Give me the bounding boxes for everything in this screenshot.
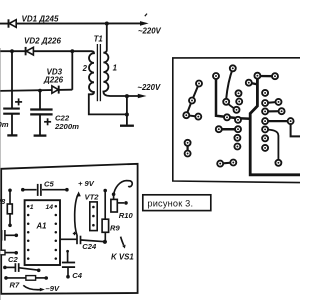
svg-text:K VS1: K VS1 (111, 253, 134, 262)
svg-text:R7: R7 (10, 281, 20, 290)
svg-text:~220V: ~220V (138, 27, 162, 36)
svg-text:T1: T1 (94, 35, 103, 44)
svg-text:VT2: VT2 (85, 192, 100, 201)
svg-text:2200m: 2200m (54, 122, 79, 131)
svg-text:0m: 0m (0, 120, 9, 129)
svg-text:14: 14 (46, 204, 54, 211)
svg-text:C2: C2 (8, 255, 18, 264)
svg-text:VD1 Д245: VD1 Д245 (22, 15, 59, 24)
svg-text:C4: C4 (72, 271, 82, 280)
svg-text:C24: C24 (82, 242, 97, 251)
svg-text:R10: R10 (119, 211, 134, 220)
svg-text:Д226: Д226 (43, 76, 64, 85)
svg-text:R8: R8 (0, 197, 6, 206)
svg-text:2: 2 (82, 64, 88, 73)
svg-text:VD2 Д226: VD2 Д226 (24, 36, 61, 45)
svg-text:1: 1 (30, 204, 34, 211)
svg-text:R9: R9 (110, 224, 120, 233)
svg-text:рисунок 3.: рисунок 3. (147, 198, 193, 208)
svg-text:–9V: –9V (46, 284, 60, 293)
svg-text:C5: C5 (44, 180, 54, 189)
svg-text:1: 1 (113, 64, 117, 73)
svg-text:A1: A1 (36, 222, 47, 231)
svg-text:~220V: ~220V (137, 83, 161, 92)
svg-text:+ 9V: + 9V (78, 179, 95, 188)
